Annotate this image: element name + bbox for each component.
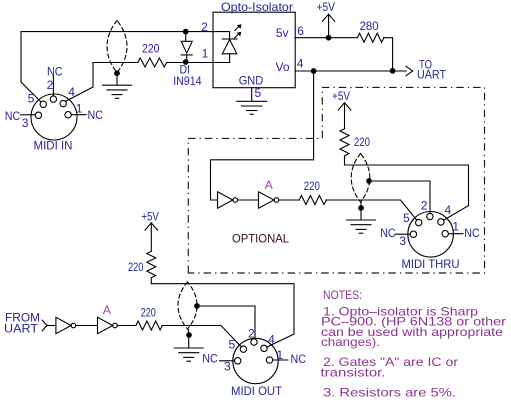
svg-text:NC: NC <box>5 109 21 123</box>
inverter gate (optional buffer 1) <box>218 192 238 208</box>
resistor 220 (out pullup) <box>147 251 156 277</box>
svg-text:NOTES:: NOTES: <box>323 288 362 302</box>
svg-text:5: 5 <box>403 211 410 225</box>
svg-text:1: 1 <box>76 101 83 115</box>
cable shield ellipse (MIDI THRU) <box>351 154 370 208</box>
svg-text:2: 2 <box>47 78 54 92</box>
junction dot 280/Vo <box>390 69 395 74</box>
svg-text:5: 5 <box>228 337 235 351</box>
wire shield to MIDI OUT pin2 <box>197 306 255 339</box>
cable shield ellipse (MIDI OUT) <box>178 282 197 334</box>
inverter gate A (out buffer 2) <box>98 317 118 333</box>
MIDI THRU pin 5 <box>416 219 422 225</box>
junction dot shield (OUT pin2) <box>195 304 200 309</box>
svg-text:280: 280 <box>360 19 379 33</box>
svg-text:transistor.: transistor. <box>321 366 386 380</box>
wire Vo to UART <box>295 70 406 72</box>
junction dot D1 top <box>183 29 188 34</box>
svg-text:3: 3 <box>224 360 231 374</box>
MIDI IN connector body <box>31 94 77 140</box>
svg-text:220: 220 <box>304 179 320 193</box>
MIDI OUT pin 3 <box>235 358 241 364</box>
MIDI IN pin 5 <box>40 101 46 107</box>
svg-text:3: 3 <box>22 116 29 130</box>
cable shield ellipse (MIDI IN) <box>107 21 127 73</box>
wire gate to 220 (optional) <box>279 199 300 201</box>
ground (MIDI IN shield) <box>103 73 132 98</box>
svg-text:NC: NC <box>202 352 218 366</box>
+5V supply arrow (top) <box>322 14 334 38</box>
MIDI THRU pin 4 <box>438 219 444 225</box>
wire 220 to MIDI OUT pin5 <box>162 326 241 347</box>
svg-text:OPTIONAL: OPTIONAL <box>232 232 289 246</box>
wire NC to MIDI IN pin2 <box>52 76 54 96</box>
ground (MIDI THRU shield) <box>347 208 376 233</box>
svg-text:2: 2 <box>421 199 428 213</box>
inverter gate (out buffer 1) <box>56 317 76 333</box>
+5V supply arrow (out) <box>145 223 158 251</box>
wire MIDI IN pin5 to opto pin2 (top net) <box>21 32 230 102</box>
wire uart to gate <box>47 325 56 327</box>
wire 220 to MIDI THRU pin5 <box>326 200 417 220</box>
svg-text:MIDI OUT: MIDI OUT <box>231 384 283 398</box>
diode D1 1N914 <box>181 32 192 63</box>
junction dot shield ground (OUT) <box>187 333 192 338</box>
svg-text:2: 2 <box>201 20 208 34</box>
svg-text:NC: NC <box>291 352 307 366</box>
svg-text:+5V: +5V <box>141 210 158 224</box>
resistor 220 (midi out series) <box>136 321 162 330</box>
notes text block <box>321 288 507 400</box>
svg-text:Opto-Isolator: Opto-Isolator <box>221 0 293 14</box>
resistor 220 (optional thru) <box>299 196 326 205</box>
svg-text:1: 1 <box>202 47 209 61</box>
wire Vo to optional gates <box>211 71 314 200</box>
svg-text:2: 2 <box>248 327 255 341</box>
MIDI OUT pin 1 <box>266 357 272 363</box>
svg-text:MIDI THRU: MIDI THRU <box>402 257 460 271</box>
MIDI OUT pin 2 <box>251 339 257 345</box>
inverter gate A (optional buffer 2) <box>259 192 279 208</box>
svg-text:5v: 5v <box>276 26 289 40</box>
wire between out gates <box>76 325 98 327</box>
MIDI THRU pin 1 <box>442 231 448 237</box>
junction dot shield (THRU pin2) <box>367 179 372 184</box>
svg-text:4: 4 <box>68 85 75 99</box>
svg-text:1: 1 <box>276 348 283 362</box>
junction dot shield ground (MIDI IN) <box>115 71 120 76</box>
wire NC to MIDI IN pin3 <box>21 114 36 116</box>
junction dot shield ground (THRU) <box>359 206 364 211</box>
wire resistor to opto pin1 <box>167 62 230 64</box>
MIDI OUT pin 4 <box>261 345 267 351</box>
svg-text:4: 4 <box>297 56 304 70</box>
MIDI THRU pin 3 <box>410 231 416 237</box>
wire opto pin6 to 280 <box>295 37 357 39</box>
wire MIDI THRU pin1 to NC <box>448 233 463 235</box>
svg-text:NC: NC <box>464 226 480 240</box>
OPTIONAL dashed box <box>188 87 484 273</box>
wire MIDI IN pin1 to NC <box>71 114 86 116</box>
svg-text:220: 220 <box>354 135 370 149</box>
MIDI OUT connector body <box>233 338 278 383</box>
svg-text:NC: NC <box>47 65 63 79</box>
FROM UART arrowhead <box>42 320 47 331</box>
svg-text:5: 5 <box>255 86 262 100</box>
wire MIDI IN pin4 riser <box>65 63 93 102</box>
MIDI IN pin 2 <box>50 96 56 102</box>
svg-text:UART: UART <box>4 322 39 336</box>
svg-text:220: 220 <box>141 306 156 320</box>
MIDI OUT pin 5 <box>240 346 246 352</box>
svg-text:+5V: +5V <box>317 0 336 14</box>
wire gate to 220 (out) <box>117 325 136 327</box>
wire shield to MIDI THRU pin2 <box>369 181 430 213</box>
svg-text:220: 220 <box>142 42 160 56</box>
svg-text:changes).: changes). <box>321 335 380 349</box>
junction dot Vo branch <box>311 69 316 74</box>
svg-text:NC: NC <box>88 108 104 122</box>
ground (opto pin 5) <box>237 101 267 114</box>
svg-text:3. Resistors are 5%.: 3. Resistors are 5%. <box>323 386 456 400</box>
+5V supply arrow (thru) <box>338 103 351 129</box>
wire 220 to MIDI THRU pin4 <box>345 157 469 221</box>
svg-text:+5V: +5V <box>332 89 350 103</box>
svg-text:3: 3 <box>399 234 406 248</box>
MIDI THRU connector body <box>408 212 454 258</box>
svg-text:A: A <box>265 178 273 192</box>
MIDI THRU pin 2 <box>427 213 433 219</box>
opto LED emission arrows <box>235 26 240 38</box>
svg-text:UART: UART <box>417 68 447 82</box>
resistor R1 220 (MIDI IN) <box>138 58 167 67</box>
svg-text:NC: NC <box>380 226 396 240</box>
resistor 220 (thru pullup) <box>340 129 349 156</box>
wire pin4 to resistor <box>93 62 138 64</box>
ground (MIDI OUT shield) <box>174 335 203 361</box>
MIDI IN pin 1 <box>65 112 71 118</box>
opto internal LED <box>222 32 237 63</box>
wire NC to MIDI THRU pin3 <box>395 233 410 235</box>
svg-text:5: 5 <box>28 92 35 106</box>
MIDI IN pin 4 <box>60 100 66 106</box>
svg-text:MIDI IN: MIDI IN <box>34 139 73 153</box>
junction dot +5V/pin6 <box>326 35 331 40</box>
svg-text:220: 220 <box>128 260 144 274</box>
svg-text:Vo: Vo <box>275 60 289 74</box>
opto-isolator U1 body <box>213 12 295 88</box>
svg-text:4: 4 <box>445 203 452 217</box>
wire 280 to Vo net <box>384 38 393 71</box>
resistor 280 <box>357 33 384 42</box>
svg-text:1: 1 <box>452 220 459 234</box>
wire NC to MIDI OUT pin3 <box>220 360 235 362</box>
svg-text:IN914: IN914 <box>173 74 202 88</box>
MIDI IN pin 3 <box>35 112 41 118</box>
wire between optional gates <box>238 199 259 201</box>
svg-text:A: A <box>103 303 111 317</box>
wire MIDI OUT pin1 to NC <box>273 359 288 361</box>
svg-text:4: 4 <box>268 332 275 346</box>
TO UART arrowhead <box>406 66 413 75</box>
wire 220 to MIDI OUT pin4 <box>151 278 294 348</box>
opto pin 5 stem <box>251 88 253 102</box>
junction dot D1 bottom <box>183 60 188 65</box>
svg-text:6: 6 <box>297 24 304 38</box>
